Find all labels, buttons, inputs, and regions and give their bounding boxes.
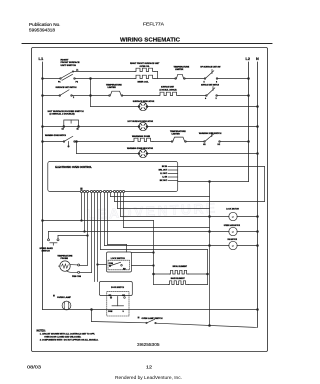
svg-text:M: M [232,231,234,234]
oven lamp [53,295,72,310]
resistor surface unit coil row2 [159,86,179,96]
wire pin5 to door switch [94,193,96,282]
svg-text:PRB COM: PRB COM [72,276,81,278]
svg-text:WARMING ZONE INDICATOR: WARMING ZONE INDICATOR [127,147,153,150]
svg-text:(1 DOUBLE, 1 SINGLE): (1 DOUBLE, 1 SINGLE) [160,89,177,91]
heating element broil element [154,266,208,274]
svg-text:WIRING SCHEMATIC: WIRING SCHEMATIC [120,38,180,44]
svg-text:OVEN LAMP SWITCH: OVEN LAMP SWITCH [142,317,164,320]
resistor inner coil [135,75,155,83]
wire lock switch NO to element bracket [132,265,155,267]
svg-text:L1 OUT: L1 OUT [160,173,168,175]
bus L2 [248,62,250,182]
wire L2 IN to L2 bus [178,181,249,183]
resistor right front surface unit outer coil [130,62,160,71]
thermal limiter row1 [174,65,190,79]
motor speed bake motor [210,224,259,236]
svg-text:12: 12 [146,364,153,369]
wire pin9 to lock switch top [108,193,127,252]
part number [137,342,160,347]
svg-text:SURFACE INDICATOR: SURFACE INDICATOR [133,100,155,103]
svg-text:12: 12 [62,129,65,131]
svg-text:RIGHT FRONT SURFACE UNIT: RIGHT FRONT SURFACE UNIT [130,62,160,65]
svg-text:INNER COIL: INNER COIL [138,82,150,84]
wire element bracket right [207,250,209,285]
svg-text:08/03: 08/03 [27,364,42,369]
svg-text:SWITCH: SWITCH [42,250,51,252]
wire pin3 to speed bake switch right / probe T1 [58,193,88,266]
svg-text:5995394318: 5995394318 [29,27,56,32]
svg-text:2: 2 [73,97,75,99]
row 4 wire L1 to N [42,126,259,128]
svg-text:SPEED BAKE MOTOR: SPEED BAKE MOTOR [224,224,241,227]
svg-text:LIMITER: LIMITER [108,87,117,89]
svg-text:SURFACE UNIT: SURFACE UNIT [161,86,175,89]
svg-text:H1: H1 [203,144,206,146]
wire pin14 [124,193,210,228]
svg-text:11: 11 [77,129,80,131]
svg-text:P1: P1 [58,81,61,83]
wire pin10 [111,193,210,197]
wire riser row A to lamp switch row [91,310,93,322]
wire pin7 to element feeder [101,193,208,250]
svg-text:OUTER COIL: OUTER COIL [140,66,150,68]
svg-text:3I6255305: 3I6255305 [137,342,160,347]
switch surface unit switch (left) [56,86,77,99]
bus L1 [42,62,44,310]
svg-text:UNIT SWITCH: UNIT SWITCH [61,65,77,67]
motor lock motor [210,208,259,220]
row 3 wire surface indicator to N [91,106,259,108]
row 6 wire warming indicator to N [77,153,259,155]
svg-text:4: 4 [205,97,207,100]
svg-text:L2: L2 [246,57,250,61]
electronic oven control box [48,162,178,192]
svg-text:BK OUT: BK OUT [160,180,168,182]
svg-text:BK IN: BK IN [162,166,168,168]
connector pin header [80,188,124,193]
svg-text:9: 9 [123,311,124,313]
svg-text:(2 SINGLE, 2 DOUBLE): (2 SINGLE, 2 DOUBLE) [50,114,75,116]
svg-text:M: M [232,216,234,219]
svg-text:HOT SURFACE ROCKER SWITCH: HOT SURFACE ROCKER SWITCH [48,110,85,113]
switch oven lamp switch [138,317,163,324]
switch right front surface unit switch [58,60,80,84]
door switch box [99,282,132,317]
svg-text:COM: COM [109,263,114,265]
svg-text:6: 6 [216,81,218,83]
wire pin8 to fan motor row [105,193,211,247]
switch speed bake switch [40,239,60,253]
indicator lamp surface indicator [133,100,155,111]
lock switch box [107,252,132,272]
switch rf surface unit sw [200,66,220,84]
svg-text:L1: L1 [76,69,79,71]
svg-text:5: 5 [204,81,206,83]
wire long mid row to BK [115,201,265,203]
svg-text:WARMING ZONE: WARMING ZONE [132,135,151,138]
wire pin13 to lock motor row [121,193,211,218]
svg-text:COM: COM [108,311,113,313]
motor fan motor [210,238,259,250]
vertical connector row1-row3 [90,78,92,107]
switch warming zone switch (left) [45,134,75,147]
svg-text:BROIL ELEMENT: BROIL ELEMENT [173,266,188,268]
switch surface unit switch (right) [201,84,219,101]
wire pin2 to speed bake switch and sb motor row [49,193,211,239]
svg-text:L1: L1 [39,56,44,61]
row 2 wire L1 to L2 [42,95,250,97]
row A wire L1 to N (oven lamp row) [43,309,259,311]
wire L1 to pin1 [42,193,154,222]
svg-text:BRL OUT: BRL OUT [159,170,168,172]
svg-text:WARMING ZONE SWITCH: WARMING ZONE SWITCH [45,134,66,137]
svg-text:SURFACE UNIT SWITCH: SURFACE UNIT SWITCH [201,84,219,87]
wire pin6 to lock switch COM and door switch [97,193,107,282]
svg-text:PROBE: PROBE [61,258,69,260]
switch hot surface rocker switch [48,110,85,131]
svg-text:FRONT SURFACE: FRONT SURFACE [61,61,81,64]
svg-text:Rendered by LeadVenture, Inc.: Rendered by LeadVenture, Inc. [115,375,182,381]
bus N [257,62,259,327]
svg-text:FEFL77A: FEFL77A [143,22,164,27]
indicator lamp warming zone indicator [127,147,153,158]
temperature probe [57,255,81,279]
wire pin4 to probe T2 [80,193,92,273]
wire element bracket left [153,221,155,285]
svg-text:WARMING ZONE SWITCH: WARMING ZONE SWITCH [199,132,222,135]
svg-text:M: M [232,245,234,248]
svg-text:3: 3 [216,98,218,100]
row D wire oven lamp switch row [92,322,257,328]
header publication number [29,22,180,44]
svg-text:H2: H2 [218,144,221,146]
svg-text:NOTES:: NOTES: [37,329,46,332]
svg-text:P2: P2 [76,81,79,83]
header rule [22,43,272,45]
svg-text:2. COMPONENTS WITH ▪ DO NOT: 2. COMPONENTS WITH ▪ DO NOT APPEAR ON AL… [40,338,99,341]
vertical connector row5-row6 [76,141,78,154]
wire lock switch top to element bracket [132,252,154,254]
notes text [37,329,99,341]
resistor warming zone coil [132,135,153,142]
svg-text:SPEED BAKE: SPEED BAKE [40,247,54,250]
wire upper branch outer coil [73,72,158,79]
schematic border [32,48,268,352]
thermal limiter row2 [106,84,123,97]
svg-text:BAKE ELEMENT: BAKE ELEMENT [171,277,186,280]
svg-text:LIMITER: LIMITER [175,69,184,71]
svg-text:1. CIRCUIT SHOWN WITH ALL CON: 1. CIRCUIT SHOWN WITH ALL CONTROLS SET T… [40,332,95,335]
svg-text:LIMITER: LIMITER [172,134,181,136]
wire BK IN to far right [178,167,265,202]
svg-text:LOCK MOTOR: LOCK MOTOR [226,208,239,210]
svg-text:LEADVENTURE: LEADVENTURE [86,200,218,223]
bus labels [39,56,260,61]
heating element bake element [154,277,208,284]
row 5 wire L1 to L2 [42,141,250,143]
svg-text:LOCK SWITCH: LOCK SWITCH [111,258,125,260]
svg-text:L2 IN: L2 IN [162,177,167,179]
svg-text:ELECTRONIC OVEN CONTROL: ELECTRONIC OVEN CONTROL [55,165,92,169]
indicator lamp hot surface indicator [128,120,154,131]
svg-text:FAN MOTOR: FAN MOTOR [228,238,238,241]
row 1 wire L1 to L2 [42,78,250,80]
wire pin11 [114,193,116,202]
svg-text:N: N [256,57,259,61]
footer date [27,364,182,381]
thermal limiter row5 [170,130,186,142]
svg-text:HOT SURFACE INDICATOR: HOT SURFACE INDICATOR [128,120,154,123]
switch warming zone switch (right) [199,132,222,146]
wire pin12 [118,193,210,209]
svg-text:OVEN LAMP: OVEN LAMP [57,296,72,299]
vertical feeder V1 [209,182,211,326]
svg-text:RF SURFACE UNIT SW: RF SURFACE UNIT SW [200,66,220,69]
svg-text:SURFACE UNIT SWITCH: SURFACE UNIT SWITCH [56,86,77,89]
svg-text:DOOR SWITCH: DOOR SWITCH [111,287,124,289]
svg-text:OVEN DOOR CLOSED AND UNLOCKED.: OVEN DOOR CLOSED AND UNLOCKED. [44,335,81,338]
